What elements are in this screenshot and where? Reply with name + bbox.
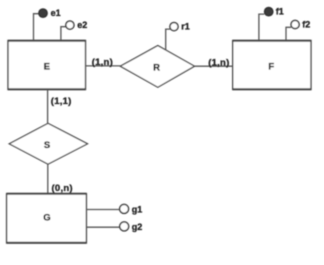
wire f1-F: [259, 14, 264, 40]
wire R-F: [195, 65, 233, 67]
svg-text:S: S: [44, 140, 50, 151]
svg-text:g2: g2: [132, 222, 143, 232]
wire S-G: [47, 164, 49, 193]
svg-text:f2: f2: [302, 19, 310, 29]
wire e1-E: [34, 14, 39, 40]
relationship R: [120, 46, 194, 88]
attribute e2: [66, 20, 88, 30]
entity F: [233, 41, 311, 90]
attribute g1: [120, 204, 143, 214]
wire g1-G: [86, 209, 119, 211]
svg-text:g1: g1: [132, 204, 143, 214]
entity E: [8, 41, 86, 90]
attribute f2: [291, 19, 310, 29]
svg-text:(1,n): (1,n): [208, 57, 229, 68]
svg-text:(1,n): (1,n): [92, 57, 113, 68]
wire f2-F: [286, 27, 291, 40]
svg-text:(1,1): (1,1): [51, 96, 72, 107]
svg-text:G: G: [43, 213, 50, 224]
svg-text:F: F: [268, 61, 274, 72]
svg-text:R: R: [153, 63, 160, 74]
svg-text:e1: e1: [51, 8, 61, 18]
svg-text:e2: e2: [77, 20, 87, 30]
wire e2-E: [61, 27, 66, 40]
svg-text:f1: f1: [276, 6, 284, 16]
entity G: [7, 194, 87, 243]
svg-text:E: E: [44, 61, 50, 72]
attribute e1 (key): [39, 8, 61, 18]
wire E-S: [47, 90, 49, 124]
relationship S: [9, 123, 87, 164]
svg-text:(0,n): (0,n): [52, 183, 73, 194]
wire E-R: [86, 65, 121, 67]
svg-text:r1: r1: [181, 21, 190, 31]
attribute g2: [120, 222, 143, 232]
wire r1-R: [166, 29, 171, 50]
wire g2-G: [86, 226, 119, 228]
attribute f1 (key): [265, 6, 284, 16]
attribute r1: [170, 21, 190, 31]
